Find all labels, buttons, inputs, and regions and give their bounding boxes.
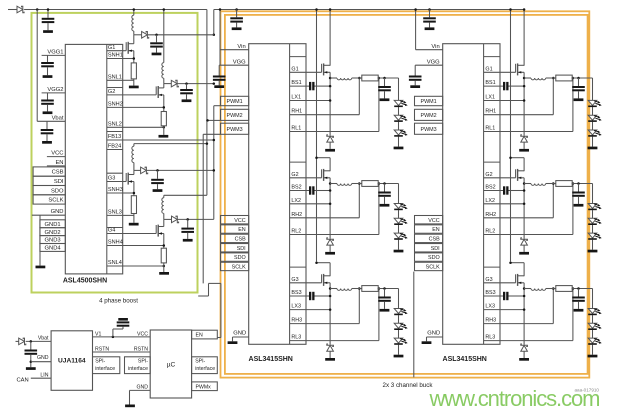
wire: battery feed to phase 4: [164, 194, 207, 196]
svg-text:UJA1164: UJA1164: [58, 357, 86, 364]
pin G2 (ASL3415SHN): [484, 162, 500, 178]
capacitor C BS3 (ASL3415SHN): [290, 292, 332, 300]
pin EN (uC): [192, 330, 218, 339]
pin CSB (ASL3415SHN): [415, 234, 443, 242]
pin SDI (ASL3415SHN): [221, 244, 249, 252]
svg-text:interface: interface: [128, 366, 148, 372]
pin GND2 (U1): [40, 228, 65, 236]
wire: RL2 sense (ASL3415SHN): [484, 182, 575, 234]
svg-text:VGG: VGG: [427, 59, 440, 65]
diode D freewheel ch2 (ASL3415SHN): [325, 238, 335, 255]
pin SPI-interface (uC left): [125, 357, 151, 374]
wire: RH1 sense (ASL3415SHN): [290, 77, 361, 115]
transistor Q2 buck (ASL3415SHN): [484, 169, 524, 181]
wire: SNH4: [123, 244, 165, 247]
pin G2 (U1): [107, 88, 123, 96]
resistor R sense ch1 (ASL3415SHN): [362, 75, 378, 81]
svg-text:ASL4500SHN: ASL4500SHN: [63, 278, 107, 285]
orange box (outer): 2x 3 channel buck region: [221, 11, 590, 377]
svg-text:GND: GND: [233, 331, 246, 337]
svg-text:GND1: GND1: [45, 222, 61, 228]
svg-text:BS1: BS1: [291, 80, 301, 86]
svg-text:G1: G1: [291, 66, 298, 72]
wire: phase2 output: [164, 82, 215, 85]
svg-text:SDO: SDO: [428, 255, 440, 261]
resistor R sense ch3 (ASL3415SHN): [556, 286, 572, 292]
pin CSB (U1): [33, 167, 65, 176]
capacitor C out ch3 (ASL3415SHN): [378, 289, 391, 312]
capacitor C VGG (ASL3415SHN): [409, 65, 422, 88]
svg-text:SDO: SDO: [51, 188, 64, 194]
figure reference text: [574, 388, 599, 393]
wire: RH3 sense (ASL3415SHN): [290, 287, 361, 323]
transistor Q4 boost: [123, 219, 164, 248]
capacitor C out ch3 (ASL3415SHN): [572, 289, 585, 312]
svg-text:RL1: RL1: [485, 126, 495, 132]
svg-text:interface: interface: [195, 366, 215, 372]
pin RH2 (ASL3415SHN): [485, 212, 496, 218]
pin VGG2: [42, 87, 66, 93]
resistor R sense ph1: [131, 63, 136, 79]
wire: battery rail (top left): [8, 9, 207, 11]
svg-text:G2: G2: [485, 172, 492, 178]
svg-text:interface: interface: [95, 366, 115, 372]
svg-text:RH3: RH3: [485, 318, 496, 324]
wire: LX2 (ASL3415SHN): [290, 203, 332, 206]
capacitor C BS2 (ASL3415SHN): [290, 186, 332, 194]
pin GND3 (U1): [40, 236, 65, 244]
wire: Vboost rail (top right): [214, 9, 524, 11]
wire: RL3 sense (ASL3415SHN): [484, 287, 575, 340]
capacitor C out ph2: [180, 82, 193, 102]
wire: RL1 sense (ASL3415SHN): [290, 77, 381, 132]
pin RL1 (ASL3415SHN): [291, 126, 301, 132]
svg-text:GND3: GND3: [45, 238, 61, 244]
wire: source chain (ASL3415SHN ch2): [329, 178, 332, 239]
svg-text:VGG2: VGG2: [47, 87, 63, 93]
svg-text:GND: GND: [427, 331, 440, 337]
pin SNH4 (U1): [107, 240, 123, 246]
svg-text:SCLK: SCLK: [232, 265, 246, 271]
svg-text:SCLK: SCLK: [48, 198, 63, 204]
svg-text:PWM2: PWM2: [421, 113, 437, 119]
svg-text:SNL2: SNL2: [108, 122, 122, 128]
wire: SNL2: [123, 126, 165, 129]
pin GND4 (U1): [40, 244, 65, 252]
wire: Vbat feed from rail: [36, 8, 65, 121]
wire: drain Q3 tap (ASL3415SHN): [509, 261, 524, 276]
svg-text:SDI: SDI: [54, 179, 64, 185]
resistor R sense ch2 (ASL3415SHN): [362, 181, 378, 187]
pin ladder (U1 right side): [106, 44, 108, 274]
pin BS1 (ASL3415SHN): [291, 80, 301, 86]
svg-text:RSTN: RSTN: [95, 346, 109, 352]
svg-text:GND4: GND4: [45, 246, 62, 252]
svg-text:SNH3: SNH3: [108, 187, 123, 193]
svg-text:VCC: VCC: [137, 331, 148, 337]
pin RL2 (ASL3415SHN): [485, 229, 495, 235]
resistor R sense ch1 (ASL3415SHN): [556, 75, 572, 81]
wire: LX1 (ASL3415SHN): [290, 99, 332, 102]
svg-text:VGG1: VGG1: [47, 49, 63, 55]
diode D freewheel ch1 (ASL3415SHN): [519, 135, 529, 152]
capacitor C out ph4: [181, 218, 194, 241]
IC U1 ASL4500SHN body: [63, 44, 123, 284]
wire: LX2 (ASL3415SHN): [484, 203, 526, 206]
pin LX3 (ASL3415SHN): [291, 304, 301, 310]
transistor Q1 boost: [123, 35, 134, 63]
svg-text:G3: G3: [485, 277, 492, 283]
wire: PWM1 bus: [214, 105, 221, 107]
ground: ph3 sense: [129, 214, 139, 226]
IC ASL3415SHN body: [249, 44, 306, 363]
svg-text:RH1: RH1: [291, 109, 302, 115]
svg-text:PWM2: PWM2: [227, 113, 243, 119]
svg-text:µC: µC: [167, 362, 176, 369]
wire: bus rail right of first buck: [413, 272, 415, 378]
capacitor C Vbat: [41, 121, 54, 143]
capacitor C BS3 (ASL3415SHN): [484, 292, 526, 300]
svg-text:RL1: RL1: [291, 126, 301, 132]
diode D freewheel ch3 (ASL3415SHN): [325, 344, 335, 361]
pin SNL4 (U1): [107, 260, 123, 266]
svg-text:BS3: BS3: [485, 290, 495, 296]
wire: drain Q3 tap (ASL3415SHN): [315, 261, 330, 276]
pin LX2 (ASL3415SHN): [291, 198, 301, 204]
diode D freewheel ch3 (ASL3415SHN): [519, 344, 529, 361]
pin VGG (ASL3415SHN): [415, 59, 443, 65]
orange box (inner): [225, 15, 588, 389]
pin Vin (ASL3415SHN): [219, 8, 249, 65]
pin LX3 (ASL3415SHN): [485, 304, 495, 310]
resistor R sense ch3 (ASL3415SHN): [362, 286, 378, 292]
IC U3 microcontroller body: [150, 330, 191, 398]
svg-text:ASL3415SHN: ASL3415SHN: [249, 356, 293, 363]
svg-text:GND: GND: [51, 209, 64, 215]
pin BS3 (ASL3415SHN): [291, 290, 301, 296]
diode D ph3: [141, 167, 148, 174]
pin G3 (ASL3415SHN): [290, 267, 306, 283]
pin RL2 (ASL3415SHN): [291, 229, 301, 235]
LED string ch2 (ASL3415SHN): [588, 184, 602, 253]
diode D freewheel ch1 (ASL3415SHN): [325, 135, 335, 152]
wire: RL3 sense (ASL3415SHN): [290, 287, 381, 340]
svg-text:SPI-: SPI-: [195, 359, 205, 365]
pin PWMx (uC): [192, 382, 218, 391]
svg-text:RL2: RL2: [485, 229, 495, 235]
resistor R sense ph2: [161, 112, 166, 126]
pin SNL2 (U1): [107, 122, 123, 128]
svg-text:SCLK: SCLK: [426, 265, 440, 271]
pin SNH2 (U1): [107, 102, 123, 108]
capacitor C VGG1: [41, 55, 54, 77]
svg-text:SNH4: SNH4: [108, 240, 123, 246]
wire: output node ch2 (ASL3415SHN): [572, 182, 592, 185]
svg-text:EN: EN: [238, 227, 246, 233]
svg-text:PWM1: PWM1: [227, 99, 243, 105]
wire: source chain (ASL3415SHN ch1): [329, 72, 332, 135]
LED string ch1 (ASL3415SHN): [588, 78, 602, 149]
capacitor C out ch2 (ASL3415SHN): [572, 184, 585, 207]
diode D ph4: [172, 216, 179, 223]
pin VGG (ASL3415SHN): [219, 59, 249, 65]
svg-text:LX1: LX1: [291, 95, 301, 101]
svg-text:CSB: CSB: [235, 237, 246, 243]
pin SCLK (ASL3415SHN): [415, 262, 443, 270]
diode D ph1: [142, 32, 149, 39]
pin RH1 (ASL3415SHN): [485, 109, 496, 115]
wire: SNL4: [123, 265, 165, 268]
capacitor C out ch1 (ASL3415SHN): [378, 78, 391, 101]
pin EN (U1): [47, 160, 65, 166]
pin PWM3 (ASL3415SHN): [415, 123, 443, 134]
svg-text:G1: G1: [108, 45, 115, 51]
pin SCLK (U1): [33, 195, 65, 204]
svg-text:SNL4: SNL4: [108, 260, 122, 266]
pin G4 (U1): [107, 228, 123, 234]
pin GND (U1): [32, 209, 65, 215]
transistor Q3 buck (ASL3415SHN): [290, 274, 331, 286]
inductor L ch3 (ASL3415SHN): [524, 289, 556, 291]
pin SDO (U1): [33, 186, 65, 195]
svg-text:G3: G3: [108, 176, 115, 182]
wire: SNL1: [123, 79, 134, 81]
svg-text:GND: GND: [136, 384, 148, 390]
svg-text:2x 3 channel buck: 2x 3 channel buck: [383, 382, 434, 389]
svg-text:VCC: VCC: [51, 151, 63, 157]
svg-text:BS2: BS2: [485, 185, 495, 191]
svg-text:V1: V1: [95, 331, 101, 337]
pin SDO (ASL3415SHN): [415, 253, 443, 261]
pin RH3 (ASL3415SHN): [291, 318, 302, 324]
inductor L1: [132, 8, 135, 35]
wire: output node ch1 (ASL3415SHN): [378, 77, 398, 80]
wire: LX3 (ASL3415SHN): [484, 308, 526, 311]
pin VCC (ASL3415SHN): [221, 216, 249, 224]
wire: output node ch1 (ASL3415SHN): [572, 77, 592, 80]
svg-text:RH1: RH1: [485, 109, 496, 115]
node: phase1 output joins Vboost riser: [213, 34, 216, 37]
svg-text:RH2: RH2: [291, 212, 302, 218]
wire: PWM2 bus: [206, 119, 220, 122]
svg-text:GND2: GND2: [45, 230, 61, 236]
wire: RH1 sense (ASL3415SHN): [484, 77, 555, 115]
wire: Vin rail to drains (ASL3415SHN): [509, 8, 512, 261]
svg-text:RL3: RL3: [485, 335, 495, 341]
svg-text:G4: G4: [108, 228, 115, 234]
wire: RH2 sense (ASL3415SHN): [484, 182, 555, 218]
wire: RL2 sense (ASL3415SHN): [290, 182, 381, 234]
wire: output node ch3 (ASL3415SHN): [378, 287, 398, 290]
svg-text:RH2: RH2: [485, 212, 496, 218]
pin FB13 (U1): [107, 132, 123, 141]
green box: 4 phase boost region: [32, 13, 198, 305]
svg-text:BS1: BS1: [485, 80, 495, 86]
wire: phase1 output: [134, 34, 214, 36]
pin BS2 (ASL3415SHN): [291, 185, 301, 191]
wire: output node ch3 (ASL3415SHN): [572, 287, 592, 290]
wire: FB13 sense: [107, 139, 215, 142]
svg-text:VCC: VCC: [234, 218, 245, 224]
pin VCC (ASL3415SHN): [415, 216, 443, 224]
wire: V1 to VCC: [93, 331, 151, 337]
svg-text:RL2: RL2: [291, 229, 301, 235]
wire: SNL3: [123, 214, 134, 216]
pin SPI-interface (UJA): [93, 357, 120, 374]
transistor Q1 buck (ASL3415SHN): [290, 63, 331, 75]
capacitor C Vin (ASL3415SHN): [230, 8, 243, 30]
pin G1 (U1): [107, 45, 123, 51]
svg-text:G1: G1: [485, 66, 492, 72]
pin CSB (ASL3415SHN): [221, 234, 249, 242]
transistor Q2 buck (ASL3415SHN): [290, 169, 331, 181]
svg-text:VGG: VGG: [233, 59, 246, 65]
pin LX2 (ASL3415SHN): [485, 198, 495, 204]
resistor R sense ph4: [161, 248, 166, 263]
wire: drain Q1 to Vboost rail (ASL3415SHN): [329, 8, 332, 65]
svg-text:PWM3: PWM3: [421, 127, 437, 133]
wire: RL1 sense (ASL3415SHN): [484, 77, 575, 132]
pin G3 (ASL3415SHN): [484, 267, 500, 283]
pin PWM2 (ASL3415SHN): [221, 109, 249, 120]
pin SDO (ASL3415SHN): [221, 253, 249, 261]
svg-text:G2: G2: [108, 89, 115, 95]
svg-text:SNH1: SNH1: [108, 53, 123, 59]
pin EN (ASL3415SHN): [221, 225, 249, 233]
svg-text:Vbat: Vbat: [38, 335, 49, 341]
pin SNL1 (U1): [107, 75, 123, 81]
wire: source chain (ASL3415SHN ch1): [523, 72, 526, 135]
wire: EN net from microcontroller: [198, 283, 221, 337]
pin VGG1: [42, 49, 66, 55]
wire: drain Q2 tap (ASL3415SHN): [509, 156, 524, 171]
svg-text:BS3: BS3: [291, 290, 301, 296]
pin SPI-interface (uC right): [192, 357, 218, 374]
pin PWM1 (ASL3415SHN): [221, 96, 249, 105]
ground: ph1 sense: [129, 79, 139, 88]
svg-text:CSB: CSB: [429, 237, 440, 243]
wire: drain Q2 tap (ASL3415SHN): [315, 156, 330, 171]
svg-text:PWM3: PWM3: [227, 127, 243, 133]
wire: Vin rail to drains (ASL3415SHN): [315, 8, 318, 261]
svg-text:PWMx: PWMx: [196, 384, 212, 390]
wire: SNH3: [123, 192, 135, 195]
wire: SNH2: [123, 106, 165, 109]
wire: phase3 output: [134, 169, 215, 172]
pin LX1 (ASL3415SHN): [485, 95, 495, 101]
svg-text:G3: G3: [291, 277, 298, 283]
svg-text:RSTN: RSTN: [134, 346, 148, 352]
svg-text:LX2: LX2: [485, 198, 495, 204]
svg-text:FB13: FB13: [108, 134, 121, 140]
svg-text:EN: EN: [55, 160, 63, 166]
svg-text:SDI: SDI: [431, 246, 440, 252]
pin PWM1 (ASL3415SHN): [415, 96, 443, 105]
pin GND (uC): [125, 384, 150, 407]
pin RH3 (ASL3415SHN): [485, 318, 496, 324]
svg-text:G2: G2: [291, 172, 298, 178]
pin SDI (ASL3415SHN): [415, 244, 443, 252]
pin PWM3 (ASL3415SHN): [221, 123, 249, 134]
inductor L ch1 (ASL3415SHN): [330, 78, 362, 80]
inductor L3: [132, 144, 134, 171]
svg-text:CAN: CAN: [17, 377, 29, 383]
resistor R sense ch2 (ASL3415SHN): [556, 181, 572, 187]
LED string ch1 (ASL3415SHN): [394, 78, 408, 149]
wire: battery feed to phase 3: [134, 142, 208, 145]
capacitor C V1: [112, 318, 130, 338]
wire: source chain (ASL3415SHN ch2): [523, 178, 526, 239]
pin EN (ASL3415SHN): [415, 225, 443, 233]
svg-text:SPI-: SPI-: [95, 359, 105, 365]
svg-text:www.cntronics.com: www.cntronics.com: [429, 386, 601, 411]
pin RH2 (ASL3415SHN): [291, 212, 302, 218]
pin PWM2 (ASL3415SHN): [415, 109, 443, 120]
pin SCLK (ASL3415SHN): [221, 262, 249, 270]
svg-text:SDI: SDI: [237, 246, 246, 252]
pin Vin (ASL3415SHN): [414, 8, 442, 50]
pin VCC (U1): [47, 151, 65, 157]
svg-text:SNH2: SNH2: [108, 102, 123, 108]
wire: SNH1: [123, 57, 135, 60]
LED string ch2 (ASL3415SHN): [394, 184, 408, 253]
pin GND (ASL3415SHN): [422, 331, 443, 344]
transistor Q1 buck (ASL3415SHN): [484, 63, 524, 75]
wire: Vboost collector riser: [213, 10, 215, 220]
pin G1 (ASL3415SHN): [290, 57, 306, 73]
capacitor C BS1 (ASL3415SHN): [290, 82, 332, 90]
pin FB24 (U1): [107, 144, 123, 150]
wire: source chain (ASL3415SHN ch3): [329, 283, 332, 345]
transistor Q3 boost: [123, 170, 134, 195]
transistor Q3 buck (ASL3415SHN): [484, 274, 524, 286]
svg-text:LX3: LX3: [485, 304, 495, 310]
svg-text:GND: GND: [37, 355, 49, 361]
svg-text:LX1: LX1: [485, 95, 495, 101]
svg-text:SNL1: SNL1: [108, 75, 122, 81]
pin G1 (ASL3415SHN): [484, 57, 500, 73]
capacitor C out ch2 (ASL3415SHN): [378, 184, 391, 207]
wire: LX3 (ASL3415SHN): [290, 308, 332, 311]
svg-text:SPI-: SPI-: [138, 359, 148, 365]
svg-text:BS2: BS2: [291, 185, 301, 191]
LED string ch3 (ASL3415SHN): [588, 289, 602, 358]
ground: ph4 sense: [159, 263, 169, 275]
svg-text:SNL3: SNL3: [108, 210, 122, 216]
capacitor C out ph3: [151, 169, 164, 192]
pin BS1 (ASL3415SHN): [485, 80, 495, 86]
diode D freewheel ch2 (ASL3415SHN): [519, 238, 529, 255]
capacitor C VGG2: [41, 93, 54, 114]
svg-text:VCC: VCC: [428, 218, 439, 224]
inductor L ch3 (ASL3415SHN): [330, 289, 362, 291]
pin BS3 (ASL3415SHN): [485, 290, 495, 296]
wire: source chain (ASL3415SHN ch3): [523, 283, 526, 345]
pin RL3 (ASL3415SHN): [485, 335, 495, 341]
svg-text:Vbat: Vbat: [52, 116, 64, 122]
svg-text:RH3: RH3: [291, 318, 302, 324]
wire: LX1 (ASL3415SHN): [484, 99, 526, 102]
wire: battery rail down-turn: [206, 10, 208, 196]
svg-text:RL3: RL3: [291, 335, 301, 341]
ground: ph2 sense: [159, 126, 169, 138]
svg-text:EN: EN: [196, 333, 203, 339]
pin BS2 (ASL3415SHN): [485, 185, 495, 191]
capacitor C BS1 (ASL3415SHN): [484, 82, 526, 90]
pin GND (UJA): [31, 355, 51, 362]
LED string ch3 (ASL3415SHN): [394, 289, 408, 358]
pin GND (ASL3415SHN): [228, 331, 249, 344]
